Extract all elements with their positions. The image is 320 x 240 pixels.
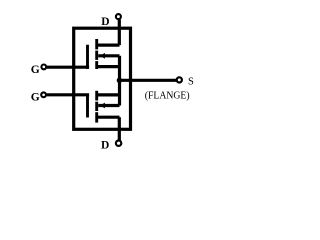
transistor Q2 source rail [118,80,121,105]
transistor Q1 body arrow [100,53,105,59]
transistor Q1 channel segment body [95,51,98,60]
transistor Q2 gate bar [86,95,89,118]
svg-text:S: S [188,76,194,87]
package outline box [74,28,131,129]
transistor Q2 drain stub [97,116,120,119]
transistor Q1 channel segment source [95,61,98,69]
wire gate G2 horizontal [47,93,89,96]
transistor Q1 source stub [97,65,120,68]
svg-text:D: D [101,140,109,152]
transistor Q2 body arrow [100,103,105,109]
wire drain D1 vertical [118,20,121,46]
terminal circle D1 [116,14,121,19]
svg-text:D: D [101,16,109,28]
wire gate G1 horizontal [47,66,89,69]
transistor Q2 channel segment source [95,91,98,101]
transistor Q1 gate bar [86,45,89,69]
transistor Q2 channel segment body [95,102,98,111]
svg-text:G: G [31,64,40,76]
svg-text:G: G [31,92,40,104]
transistor Q1 body stub [98,54,119,57]
terminal circle D2 [116,141,121,146]
wire drain D2 vertical [118,117,121,140]
transistor Q2 source stub [97,93,120,96]
wire source S horizontal [118,79,176,82]
terminal circle S [177,77,182,82]
terminal circle G1 [41,65,46,70]
transistor Q2 channel segment drain [95,112,98,122]
svg-text:(FLANGE): (FLANGE) [145,89,190,101]
transistor Q2 body stub [98,104,119,107]
terminal circle G2 [41,92,46,97]
transistor Q1 channel segment drain [95,39,98,49]
transistor Q1 source rail [118,56,121,81]
transistor Q1 drain stub [97,43,120,46]
junction dot source node [117,78,122,83]
